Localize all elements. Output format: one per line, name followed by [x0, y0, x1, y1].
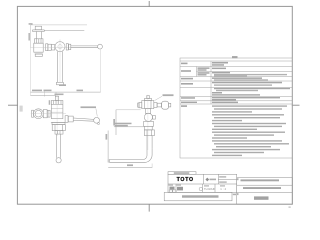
handle ball: [94, 117, 100, 123]
handle hub: [66, 44, 68, 50]
contact tab: [168, 172, 196, 175]
wall line: [44, 30, 84, 32]
coupling rings: [55, 131, 63, 135]
right centre mark: [292, 104, 300, 106]
handle rod: [71, 45, 98, 47]
stub right of circle: [153, 116, 156, 120]
side labels: [237, 178, 239, 180]
top centre mark: [148, 1, 150, 7]
dimension row 2: [31, 94, 57, 96]
stamp cell: [205, 178, 216, 182]
dim: wall to centre: [116, 109, 141, 111]
lock nut: [34, 39, 43, 43]
centrelines: [31, 47, 71, 49]
header: [232, 56, 238, 58]
flange plate: [33, 29, 45, 31]
product name: [241, 179, 280, 181]
row2 contents: [170, 187, 175, 190]
leader + label: [155, 96, 163, 100]
upper body: [142, 101, 154, 109]
faint note near left border: [20, 106, 23, 112]
left arm: [139, 102, 142, 107]
button face cap: [32, 110, 34, 117]
main block rows 1-2: [168, 174, 237, 192]
dim texts: [32, 90, 42, 92]
push button: [35, 26, 41, 30]
valve body: [51, 101, 63, 119]
handle rod: [73, 118, 94, 119]
connector rects to body: [46, 44, 48, 51]
down pipe: [56, 52, 58, 83]
dimension row 1: [31, 91, 101, 93]
bottom dim: [108, 166, 152, 168]
down pipe: [56, 134, 58, 158]
svg-text:1:4: 1:4: [220, 187, 227, 191]
top stem: [147, 96, 150, 99]
main body circle: [55, 42, 65, 52]
annotation text + leader: [81, 106, 97, 108]
left centre mark: [8, 104, 18, 106]
corner mark: [289, 207, 291, 208]
connector blocks: [43, 110, 47, 118]
spec table texts: [181, 56, 290, 107]
elbow outer: [144, 148, 153, 162]
bottom centre mark: [148, 204, 150, 211]
note row text: [182, 195, 219, 197]
note row: [164, 192, 232, 200]
handle grip end-on: [162, 101, 169, 109]
extension line under ball: [100, 50, 102, 93]
supply pipe: [35, 32, 37, 39]
faint rotated text left of cap: [49, 100, 51, 105]
row contents: [212, 62, 228, 64]
handle hub: [65, 116, 68, 123]
svg-text:TOTO: TOTO: [177, 177, 194, 183]
top cap: [144, 99, 151, 101]
stop valve tee body: [34, 43, 43, 52]
top stem: [55, 96, 58, 100]
tee lower flange: [34, 51, 43, 53]
vertical pipe: [146, 136, 148, 150]
row labels: [181, 63, 188, 65]
elbow inner: [143, 150, 148, 160]
right arm steps: [154, 103, 157, 108]
horizontal pipe: [110, 159, 143, 161]
dim texts middle: [115, 123, 132, 125]
remarks block lines: [212, 105, 289, 156]
top dimension line: [31, 24, 87, 26]
spud nut: [52, 125, 65, 131]
right cell texts: [219, 176, 226, 177]
neck: [145, 109, 150, 114]
second row: [243, 187, 281, 189]
pipe end circle: [56, 158, 61, 163]
tab text: [174, 172, 190, 174]
centreline: [147, 95, 149, 150]
svg-text:TL310UF: TL310UF: [204, 187, 216, 191]
left vertical dimension line: [30, 25, 32, 48]
lower flange: [51, 121, 65, 123]
row2 micro labels: [169, 185, 174, 186]
push button head circle: [34, 109, 44, 119]
dim text top-left: [29, 23, 33, 25]
part number: [254, 196, 269, 199]
A4 mark: [233, 194, 236, 196]
couplings below: [144, 121, 154, 126]
left vertical dim: [107, 131, 109, 163]
centrelines: [31, 113, 66, 115]
scale/projection boxes: [169, 190, 172, 192]
handle ball: [98, 44, 103, 49]
button circle: [144, 113, 152, 121]
page border frame: [17, 6, 292, 204]
